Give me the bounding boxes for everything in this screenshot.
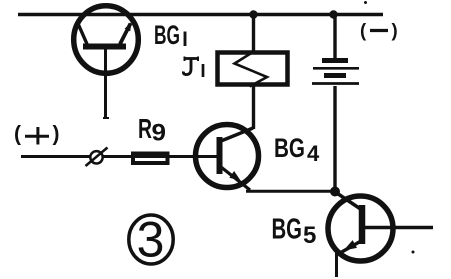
- svg-text:BG: BG: [272, 214, 303, 246]
- svg-text:9: 9: [152, 120, 167, 147]
- svg-text:R: R: [138, 113, 152, 144]
- svg-text:(: (: [360, 20, 367, 41]
- svg-text:): ): [53, 123, 60, 146]
- svg-text:5: 5: [303, 222, 316, 249]
- svg-text:): ): [392, 20, 398, 41]
- svg-text:(: (: [14, 123, 21, 146]
- svg-text:3: 3: [137, 212, 165, 268]
- svg-text:BG: BG: [154, 20, 180, 50]
- svg-text:BG: BG: [274, 133, 305, 163]
- svg-text:4: 4: [307, 141, 320, 166]
